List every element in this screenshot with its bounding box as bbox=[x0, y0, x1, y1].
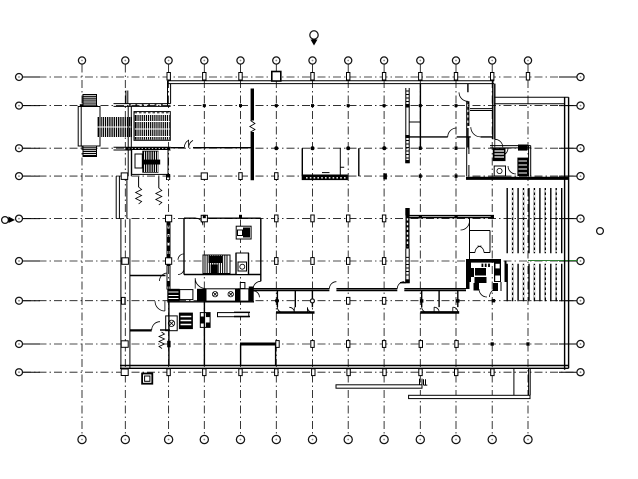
row2 tower tick bbox=[80, 104, 83, 107]
vestibule 2 bbox=[420, 291, 459, 313]
row1 column markers bbox=[167, 72, 530, 82]
room V west doors bbox=[178, 254, 184, 275]
grid vertical lines bbox=[82, 65, 528, 436]
kitchen door arcs bbox=[155, 278, 206, 311]
left exterior wall bbox=[116, 176, 127, 219]
wall x420 upper rooms bbox=[419, 84, 421, 148]
right small circle marker bbox=[597, 228, 604, 235]
ladder hatch below tower bbox=[83, 146, 97, 157]
row9 column markers bbox=[121, 369, 494, 376]
top-left wall corner vertical bbox=[168, 81, 171, 107]
door arc mid-left bbox=[159, 273, 167, 281]
left grid bubbles bbox=[16, 74, 23, 376]
bottom grid bubbles bbox=[78, 435, 532, 443]
top exterior wall bbox=[168, 81, 495, 84]
kitchen lower fixtures bbox=[166, 313, 249, 331]
top-right wall band bbox=[494, 97, 568, 104]
top grid bubbles bbox=[78, 57, 531, 64]
grid line solid stubs near bubbles bbox=[23, 77, 577, 372]
row5 column markers bbox=[166, 215, 494, 222]
apron bar 1 bbox=[336, 379, 427, 389]
elevator in room V bbox=[236, 253, 249, 275]
short vertical connector above band B bbox=[126, 91, 128, 104]
row7 column markers bbox=[122, 297, 496, 304]
window sill hatch strip bbox=[126, 147, 170, 150]
corridor wall y289 bbox=[250, 289, 466, 291]
row2 column markers bbox=[203, 104, 458, 107]
wall break symbol bbox=[250, 121, 255, 133]
stair tower upper-left bbox=[78, 107, 100, 147]
accordion door walls bbox=[139, 177, 159, 188]
bottom exterior wall bbox=[120, 366, 569, 369]
stack stripes lower group bbox=[507, 264, 562, 302]
wall x168 mid-left with window bbox=[167, 219, 170, 290]
escalator stair block bbox=[134, 112, 170, 141]
wall S x261 with door bbox=[253, 281, 261, 289]
green reference line bbox=[528, 260, 578, 262]
row6 column markers bbox=[122, 258, 386, 265]
top balloon marker bbox=[310, 31, 318, 46]
upper rooms south wall with doors bbox=[409, 136, 493, 138]
stack stripes upper group bbox=[507, 188, 562, 253]
wall x469 upper segment bbox=[469, 218, 471, 259]
wall segment x130 bbox=[128, 106, 131, 176]
bubble number marks bbox=[18, 60, 581, 441]
door arc at wall x493 bottom bbox=[495, 139, 503, 147]
toilet door arcs bbox=[500, 148, 516, 174]
closet room above core bbox=[461, 221, 491, 253]
thick interior wall x252 upper bbox=[251, 89, 254, 181]
thick wall row8 segment bbox=[240, 343, 276, 346]
M double door bbox=[184, 140, 193, 148]
toilet block walls upper-right bbox=[466, 101, 569, 178]
toilet fixtures upper-right bbox=[493, 145, 528, 177]
wall stubs left of vestibule1 bbox=[234, 283, 259, 317]
door arcs on south wall bbox=[448, 127, 481, 137]
door arc upper room bbox=[459, 92, 468, 101]
kitchen north fixtures row bbox=[167, 287, 254, 302]
hall south wall with M door bbox=[171, 147, 253, 149]
corridor door arcs bbox=[329, 282, 404, 289]
row8 column markers bbox=[121, 341, 529, 348]
wall x493 upper rooms bbox=[493, 81, 495, 140]
row5 wall x408-494 bbox=[406, 216, 494, 218]
right exterior wall bbox=[565, 97, 569, 370]
main stair hatch upper-left bbox=[98, 117, 132, 137]
left balloon marker bbox=[2, 217, 15, 224]
small square below wall bbox=[142, 374, 152, 384]
fixture above room V right bbox=[236, 226, 251, 239]
dark service core bbox=[466, 259, 507, 297]
south stair block bbox=[132, 150, 168, 175]
stair block in room V bbox=[203, 255, 230, 274]
mid-left room wall y275 bbox=[130, 275, 166, 277]
wall x241 lower bbox=[240, 344, 242, 366]
lower horizontal wall band upper-left bbox=[114, 147, 171, 150]
wall x468 upper rooms with door bbox=[467, 84, 469, 148]
wall x169 lower bbox=[168, 302, 170, 366]
upper-left horizontal wall band bbox=[114, 104, 171, 107]
grid horizontal lines bbox=[23, 77, 577, 372]
window wall x406-409 bbox=[400, 88, 420, 283]
small wall y109 bbox=[470, 109, 493, 111]
bottom-left room bbox=[130, 322, 170, 349]
wall x277 lower bbox=[275, 344, 277, 366]
room V outline bbox=[184, 218, 261, 281]
row4 column markers bbox=[121, 173, 457, 180]
ladder hatch above tower bbox=[83, 95, 97, 107]
kitchen mid vertical wall bbox=[203, 302, 205, 366]
right grid bubbles bbox=[577, 73, 584, 375]
row3 column markers bbox=[274, 146, 457, 150]
loading dock below building bbox=[409, 368, 531, 398]
vestibule 1 bbox=[276, 291, 315, 313]
accordion door squiggles bbox=[136, 187, 162, 205]
middle room x302-359 bbox=[302, 148, 359, 180]
left exterior wall lower bbox=[121, 219, 130, 369]
